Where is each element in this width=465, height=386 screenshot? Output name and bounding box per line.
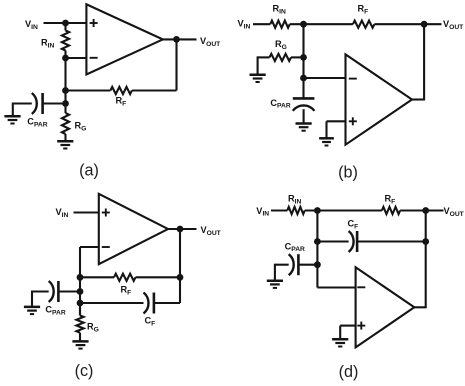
ground at RG (b) [250,74,266,77]
svg-text:(a): (a) [79,162,99,180]
resistor RIN (a) [64,23,66,31]
wire RG to ground (b) [257,56,259,74]
pin - of U2 (b) [349,78,357,80]
svg-text:(b): (b) [338,164,358,182]
junction RG/summing (b) [300,54,307,61]
junction output node (d) [422,207,429,214]
ground at + input (d) [332,338,348,341]
op-amp U2 (b) [346,54,413,144]
wire RIN node down to feedback node (a) [64,58,66,104]
capacitor CF (c) [80,302,144,304]
resistor RF (d) [382,207,400,214]
wire CPAR to ground (d) [274,264,276,281]
ground at CPAR (c) [24,306,40,309]
wire VIN to RIN (b) [253,23,270,25]
pin - of U1 (a) [90,57,98,59]
wire summing node down to CPAR (b) [302,24,304,98]
junction CF node (c) [77,300,84,307]
ground at RG (c) [72,340,88,343]
junction CPAR node (c) [77,288,84,295]
wire output (a) [163,38,197,40]
junction CPAR node (d) [314,261,321,268]
resistor RIN (d) [287,207,304,214]
wire CPAR to ground (c) [31,291,33,307]
wire output (c) [168,228,197,230]
ground at CPAR (d) [267,279,283,282]
capacitor CPAR (d) [298,264,317,266]
resistor RF (b) [353,21,375,28]
resistor RG (b) [258,56,270,58]
capacitor CF (d) [317,240,348,242]
op-amp U1 (a) [86,4,162,74]
wire RF to VOUT (d) [400,209,443,211]
junction output/feedback (c) [177,226,184,233]
wire CPAR to ground (a) [12,103,14,117]
wire + input to ground (b) [327,120,346,122]
wire - input to left rail (c) [80,246,99,248]
svg-text:(c): (c) [75,362,94,380]
capacitor CPAR (c) [58,290,80,292]
ground at CPAR (b) [296,122,312,125]
junction output node (b) [421,21,428,28]
junction RF right (c) [177,274,184,281]
pin + of U1 (a) [90,22,98,24]
junction summing node top (d) [314,207,321,214]
wire RF to VOUT (b) [374,23,441,25]
junction RF/feedback node (a) [62,87,69,94]
resistor RF (a) [132,89,177,91]
junction RIN/inverting input (a) [62,55,69,62]
junction summing node top (b) [300,21,307,28]
wire feedback vertical (c) [179,229,181,303]
op-amp U4 (d) [356,267,415,347]
junction VIN/RIN (a) [62,20,69,27]
junction CF right (d) [422,238,429,245]
ground at RG (a) [57,140,73,143]
junction inverting input node (b) [300,75,307,82]
wire + input to ground (d) [340,325,355,327]
ground at + input (b) [319,137,334,140]
wire to op-amp - input (a) [66,57,87,59]
wire VIN to RIN (d) [271,209,287,211]
wire left rail down (c) [79,247,81,316]
pin - of U3 (c) [102,246,110,248]
capacitor CPAR (a) [43,102,66,104]
wire output up to VOUT (b) [412,98,424,100]
svg-text:(d): (d) [339,363,359,381]
junction output/feedback (a) [173,36,180,43]
pin + of U3 (c) [102,212,110,214]
wire to op-amp - input (d) [317,286,355,288]
wire VIN to + input (c) [74,211,99,213]
wire feedback vertical (a) [175,39,177,90]
wire to op-amp - input (b) [304,77,346,79]
wire RIN to RF (b) [290,23,353,25]
ground at CPAR (a) [4,115,20,118]
wire summing rail down (d) [316,211,318,288]
junction RF left (c) [77,274,84,281]
resistor RIN (b) [270,21,289,28]
wire VIN to op-amp + input (a) [44,22,87,24]
junction CPAR node (a) [62,100,69,107]
capacitor CPAR (b) [293,105,315,110]
wire RIN to RF (d) [305,209,382,211]
op-amp U3 (c) [99,194,168,264]
wire output up to VOUT (d) [414,306,425,308]
pin + of U2 (b) [349,120,357,122]
resistor RF (c) [80,276,114,278]
resistor RG (a) [64,104,66,114]
pin + of U4 (d) [357,325,365,327]
junction CF left (d) [314,238,321,245]
resistor RG (c) [79,303,81,316]
pin - of U4 (d) [357,286,365,288]
